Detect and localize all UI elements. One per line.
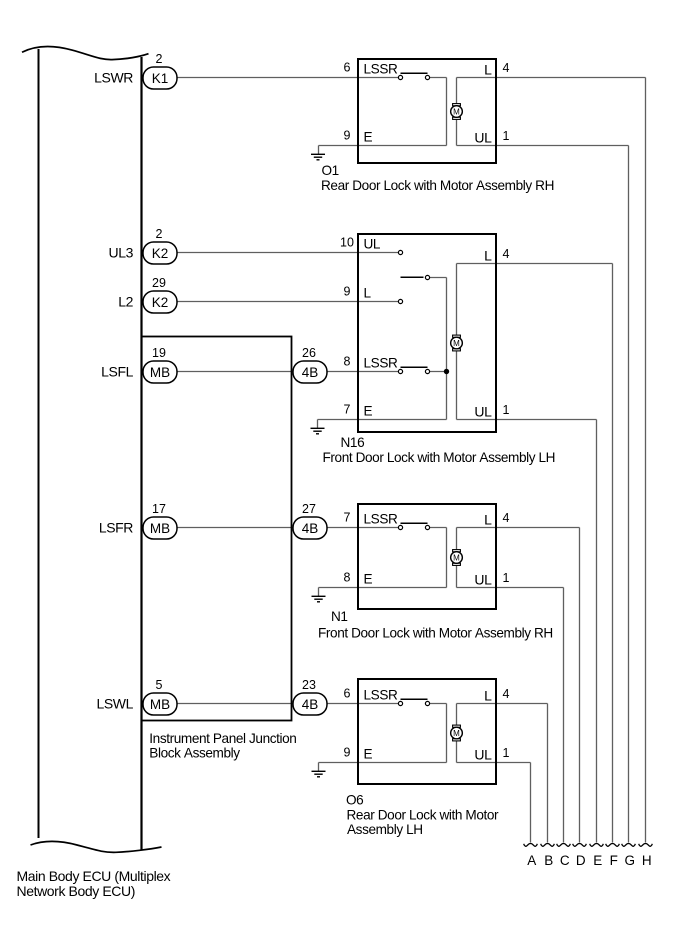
- wire N16 E line to ground: [318, 420, 447, 429]
- svg-text:E: E: [364, 747, 373, 762]
- wire O1 motor to UL pin and bus: [457, 146, 629, 843]
- svg-text:M: M: [453, 553, 460, 562]
- svg-text:29: 29: [152, 276, 166, 290]
- svg-text:UL: UL: [474, 747, 492, 763]
- wire O6 motor to UL pin and bus: [457, 763, 531, 843]
- svg-text:8: 8: [344, 355, 351, 369]
- svg-text:L: L: [364, 286, 372, 301]
- pin labels N1: [344, 511, 510, 588]
- svg-text:K1: K1: [152, 71, 169, 86]
- label N16 Front Door Lock with Motor Assembly LH: [323, 435, 556, 465]
- switch N16 LSSR (closed): [398, 367, 429, 373]
- svg-text:4B: 4B: [302, 521, 319, 536]
- svg-text:L: L: [484, 248, 492, 264]
- Instrument Panel Junction Block body: [142, 337, 292, 721]
- motor M O6: [451, 725, 463, 741]
- svg-text:H: H: [642, 853, 652, 868]
- node D (connector continuation): [573, 844, 587, 868]
- motor M N16: [451, 335, 463, 351]
- connector MB pin 19 (LSFL): [101, 346, 177, 383]
- wire N16 pin9 L input to contact: [358, 301, 398, 303]
- wire O1 motor to L pin and bus: [457, 78, 646, 843]
- connector MB pin 17 (LSFR): [99, 502, 177, 539]
- ground O1: [311, 154, 325, 160]
- motor M O1: [451, 104, 463, 120]
- wire O1 pin LSSR input to switch contact: [358, 77, 398, 79]
- svg-text:N1: N1: [331, 609, 348, 624]
- svg-text:O6: O6: [346, 792, 363, 807]
- svg-text:E: E: [364, 572, 373, 587]
- switch N1 LSSR (closed): [398, 523, 429, 529]
- svg-text:LSWL: LSWL: [96, 696, 133, 712]
- connector K2 pin 2 (UL3): [109, 227, 177, 264]
- svg-text:Assembly LH: Assembly LH: [347, 822, 423, 837]
- svg-text:K2: K2: [152, 246, 169, 261]
- svg-text:Rear Door Lock with Motor Asse: Rear Door Lock with Motor Assembly RH: [321, 178, 554, 193]
- svg-text:M: M: [453, 729, 460, 738]
- svg-text:LSSR: LSSR: [364, 356, 398, 371]
- connector 4B pin 26: [293, 346, 327, 383]
- wire N16 LSSR switch output to junction: [430, 371, 447, 373]
- svg-text:Instrument Panel Junction: Instrument Panel Junction: [149, 731, 296, 746]
- connector 4B pin 23: [293, 678, 327, 715]
- svg-text:7: 7: [344, 511, 351, 525]
- wire N1 E line to ground: [319, 588, 447, 597]
- wire N16 motor to UL pin1 and bus E: [457, 420, 597, 843]
- svg-text:D: D: [576, 853, 586, 868]
- pin labels O6: [344, 687, 510, 763]
- wire O6 switch output to common vertical: [430, 704, 447, 763]
- svg-text:23: 23: [302, 678, 316, 692]
- module box O1: [358, 59, 496, 163]
- pin labels N16: [340, 236, 509, 420]
- svg-text:8: 8: [344, 571, 351, 585]
- wire LSFR: 4B27 to N1 pin 7: [327, 527, 358, 529]
- switch N16 changeover contacts UL/L: [398, 250, 429, 303]
- svg-text:C: C: [560, 853, 570, 868]
- svg-text:UL: UL: [474, 404, 492, 420]
- node B (connector continuation): [541, 844, 555, 868]
- label O1 Rear Door Lock with Motor Assembly RH: [321, 163, 554, 193]
- wire LSWL: MB5 to 4B23: [177, 703, 293, 705]
- wire N1 motor to UL pin and bus: [457, 588, 564, 843]
- svg-text:9: 9: [344, 129, 351, 143]
- svg-text:Rear Door Lock with Motor: Rear Door Lock with Motor: [347, 808, 500, 823]
- wire N16 LSSR input to contact: [358, 371, 398, 373]
- svg-text:L2: L2: [118, 294, 133, 310]
- pin labels O1: [344, 61, 510, 146]
- wire N1 switch output to common vertical: [430, 528, 447, 588]
- svg-text:Main Body ECU (Multiplex: Main Body ECU (Multiplex: [17, 868, 171, 884]
- svg-text:LSSR: LSSR: [364, 688, 398, 703]
- ground O6: [312, 771, 326, 777]
- svg-text:E: E: [364, 404, 373, 419]
- svg-text:UL: UL: [364, 237, 381, 252]
- connector K2 pin 29 (L2): [118, 276, 177, 313]
- svg-text:L: L: [484, 62, 492, 78]
- svg-text:L: L: [484, 688, 492, 704]
- svg-text:26: 26: [302, 346, 316, 360]
- label Instrument Panel Junction Block Assembly: [149, 731, 296, 761]
- wire O6 E line to ground: [319, 763, 447, 772]
- svg-text:M: M: [453, 107, 460, 116]
- svg-text:A: A: [527, 853, 536, 868]
- svg-text:4: 4: [503, 511, 510, 525]
- svg-text:F: F: [610, 853, 618, 868]
- wire O6 pin LSSR input to switch contact: [358, 703, 398, 705]
- svg-text:MB: MB: [150, 697, 170, 712]
- wire O6 motor to L pin and bus: [457, 704, 548, 843]
- svg-text:6: 6: [344, 61, 351, 75]
- svg-text:UL: UL: [474, 130, 492, 146]
- svg-text:1: 1: [503, 403, 510, 417]
- svg-text:4B: 4B: [302, 697, 319, 712]
- svg-text:LSSR: LSSR: [364, 512, 398, 527]
- svg-text:5: 5: [156, 678, 163, 692]
- connector 4B pin 27: [293, 502, 327, 539]
- connector K1 pin 2 (LSWR): [94, 52, 177, 89]
- switch O1 LSSR (closed): [398, 73, 429, 79]
- svg-text:N16: N16: [341, 435, 365, 450]
- svg-text:2: 2: [156, 227, 163, 241]
- wire N1 pin LSSR input to switch contact: [358, 527, 398, 529]
- ground N16: [311, 428, 325, 434]
- Main Body ECU body (break lines): [22, 46, 162, 852]
- label Main Body ECU: [17, 868, 171, 899]
- svg-text:MB: MB: [150, 365, 170, 380]
- svg-text:Block Assembly: Block Assembly: [149, 746, 240, 761]
- node F (connector continuation): [606, 844, 620, 868]
- switch O6 LSSR (closed): [398, 699, 429, 705]
- svg-text:E: E: [593, 853, 602, 868]
- node C (connector continuation): [557, 844, 571, 868]
- node H (connector continuation): [639, 844, 653, 868]
- svg-text:4: 4: [503, 61, 510, 75]
- label N1 Front Door Lock with Motor Assembly RH: [318, 609, 553, 640]
- module box O6: [358, 679, 496, 784]
- wire O1 E line to ground: [319, 146, 447, 155]
- wire L2: K2 to N16 pin 9: [177, 301, 358, 303]
- svg-text:O1: O1: [322, 163, 339, 178]
- svg-text:K2: K2: [152, 295, 169, 310]
- svg-text:Front Door Lock with Motor Ass: Front Door Lock with Motor Assembly LH: [323, 450, 556, 465]
- svg-text:B: B: [544, 853, 553, 868]
- wire O1 switch output to common vertical: [430, 78, 447, 146]
- svg-text:7: 7: [344, 403, 351, 417]
- wire UL3: K2 to N16 pin 10: [177, 252, 358, 254]
- module box N1: [358, 504, 496, 609]
- svg-text:6: 6: [344, 687, 351, 701]
- svg-text:9: 9: [344, 746, 351, 760]
- wire N16 pin10 UL input to contact: [358, 252, 398, 254]
- wire LSFL: 4B26 to N16 pin 8: [327, 371, 358, 373]
- svg-text:19: 19: [152, 346, 166, 360]
- svg-text:1: 1: [503, 129, 510, 143]
- connector MB pin 5 (LSWL): [96, 678, 177, 715]
- node E (connector continuation): [590, 844, 604, 868]
- svg-text:MB: MB: [150, 521, 170, 536]
- wire LSWL: 4B23 to O6 pin 6: [327, 703, 358, 705]
- module box N16: [358, 234, 496, 432]
- wire LSWR: K1 to O1 pin 6: [177, 77, 358, 79]
- svg-text:UL: UL: [474, 572, 492, 588]
- svg-text:LSWR: LSWR: [94, 70, 133, 86]
- wire N1 motor to L pin and bus: [457, 528, 580, 843]
- svg-text:2: 2: [156, 52, 163, 66]
- svg-text:9: 9: [344, 285, 351, 299]
- svg-text:LSSR: LSSR: [364, 62, 398, 77]
- junction dot N16: [444, 369, 449, 374]
- motor M N1: [451, 550, 463, 566]
- wire LSFL: MB19 to 4B26: [177, 371, 293, 373]
- svg-text:17: 17: [152, 502, 166, 516]
- wire LSFR: MB17 to 4B27: [177, 527, 293, 529]
- node A (connector continuation): [524, 844, 538, 868]
- wire N16 changeover pivot to common vertical: [430, 278, 447, 420]
- svg-text:LSFR: LSFR: [99, 520, 133, 536]
- svg-text:UL3: UL3: [109, 245, 134, 261]
- svg-text:Network Body ECU): Network Body ECU): [17, 883, 135, 899]
- svg-text:E: E: [364, 130, 373, 145]
- ground N1: [312, 596, 326, 602]
- svg-text:4: 4: [503, 247, 510, 261]
- svg-text:4: 4: [503, 687, 510, 701]
- svg-text:10: 10: [340, 236, 354, 250]
- svg-text:1: 1: [503, 571, 510, 585]
- svg-text:L: L: [484, 512, 492, 528]
- svg-text:M: M: [453, 339, 460, 348]
- wire N16 motor to L pin4 and bus F: [457, 264, 613, 843]
- svg-text:Front Door Lock with Motor Ass: Front Door Lock with Motor Assembly RH: [318, 626, 553, 641]
- label O6 Rear Door Lock with Motor Assembly LH: [346, 792, 499, 837]
- svg-text:LSFL: LSFL: [101, 364, 133, 380]
- svg-text:1: 1: [503, 746, 510, 760]
- node G (connector continuation): [622, 844, 636, 868]
- svg-text:27: 27: [302, 502, 316, 516]
- svg-text:4B: 4B: [302, 365, 319, 380]
- svg-text:G: G: [624, 853, 635, 868]
